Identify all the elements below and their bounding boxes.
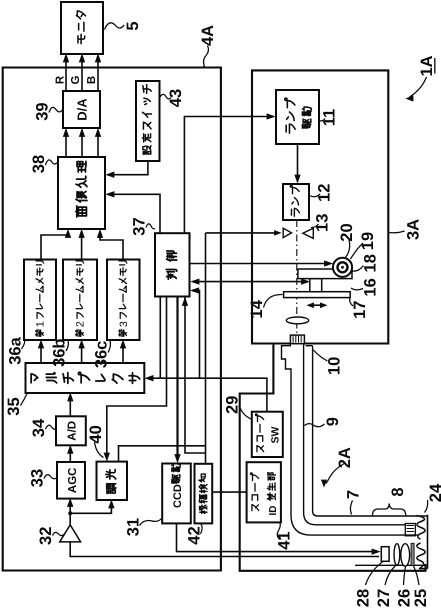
svg-text:29: 29 [224, 396, 242, 414]
svg-text:43: 43 [167, 89, 185, 107]
svg-text:41: 41 [275, 531, 293, 549]
svg-text:1A: 1A [418, 55, 436, 76]
svg-text:27: 27 [375, 589, 393, 607]
svg-text:13: 13 [314, 214, 332, 232]
svg-text:3: 3 [118, 321, 130, 327]
svg-text:4A: 4A [199, 25, 217, 46]
svg-text:8: 8 [389, 487, 407, 496]
svg-text:35: 35 [5, 397, 23, 415]
svg-text:36c: 36c [93, 341, 111, 369]
svg-text:1: 1 [35, 321, 47, 327]
svg-text:31: 31 [124, 518, 142, 536]
svg-text:20: 20 [338, 223, 356, 241]
svg-text:D/A: D/A [75, 98, 90, 121]
svg-text:7: 7 [345, 490, 363, 499]
svg-text:19: 19 [359, 232, 377, 250]
svg-text:A/D: A/D [67, 421, 79, 441]
svg-text:16: 16 [362, 278, 380, 296]
svg-text:14: 14 [248, 299, 266, 318]
svg-text:36b: 36b [51, 338, 69, 366]
svg-text:25: 25 [412, 589, 430, 607]
svg-text:42: 42 [185, 526, 203, 544]
svg-text:12: 12 [315, 184, 333, 202]
svg-text:ID: ID [268, 506, 279, 516]
svg-text:36a: 36a [6, 336, 24, 364]
svg-text:2A: 2A [336, 447, 354, 468]
svg-text:11: 11 [321, 109, 339, 126]
svg-text:G: G [70, 75, 82, 84]
svg-text:17: 17 [351, 301, 369, 319]
svg-text:SW: SW [270, 426, 282, 443]
svg-text:3A: 3A [404, 219, 422, 240]
svg-text:B: B [86, 76, 98, 84]
svg-text:32: 32 [37, 527, 55, 545]
svg-text:26: 26 [396, 589, 414, 607]
svg-text:AGC: AGC [67, 468, 79, 494]
svg-text:10: 10 [326, 357, 344, 375]
svg-text:CCD: CCD [172, 484, 184, 508]
svg-text:40: 40 [87, 425, 105, 443]
svg-text:R: R [55, 75, 67, 84]
svg-text:28: 28 [355, 589, 373, 607]
svg-text:5: 5 [124, 21, 142, 30]
svg-text:18: 18 [362, 254, 380, 272]
svg-text:2: 2 [75, 321, 87, 327]
svg-text:24: 24 [427, 483, 441, 502]
svg-text:34: 34 [30, 418, 48, 437]
svg-text:9: 9 [324, 417, 342, 426]
